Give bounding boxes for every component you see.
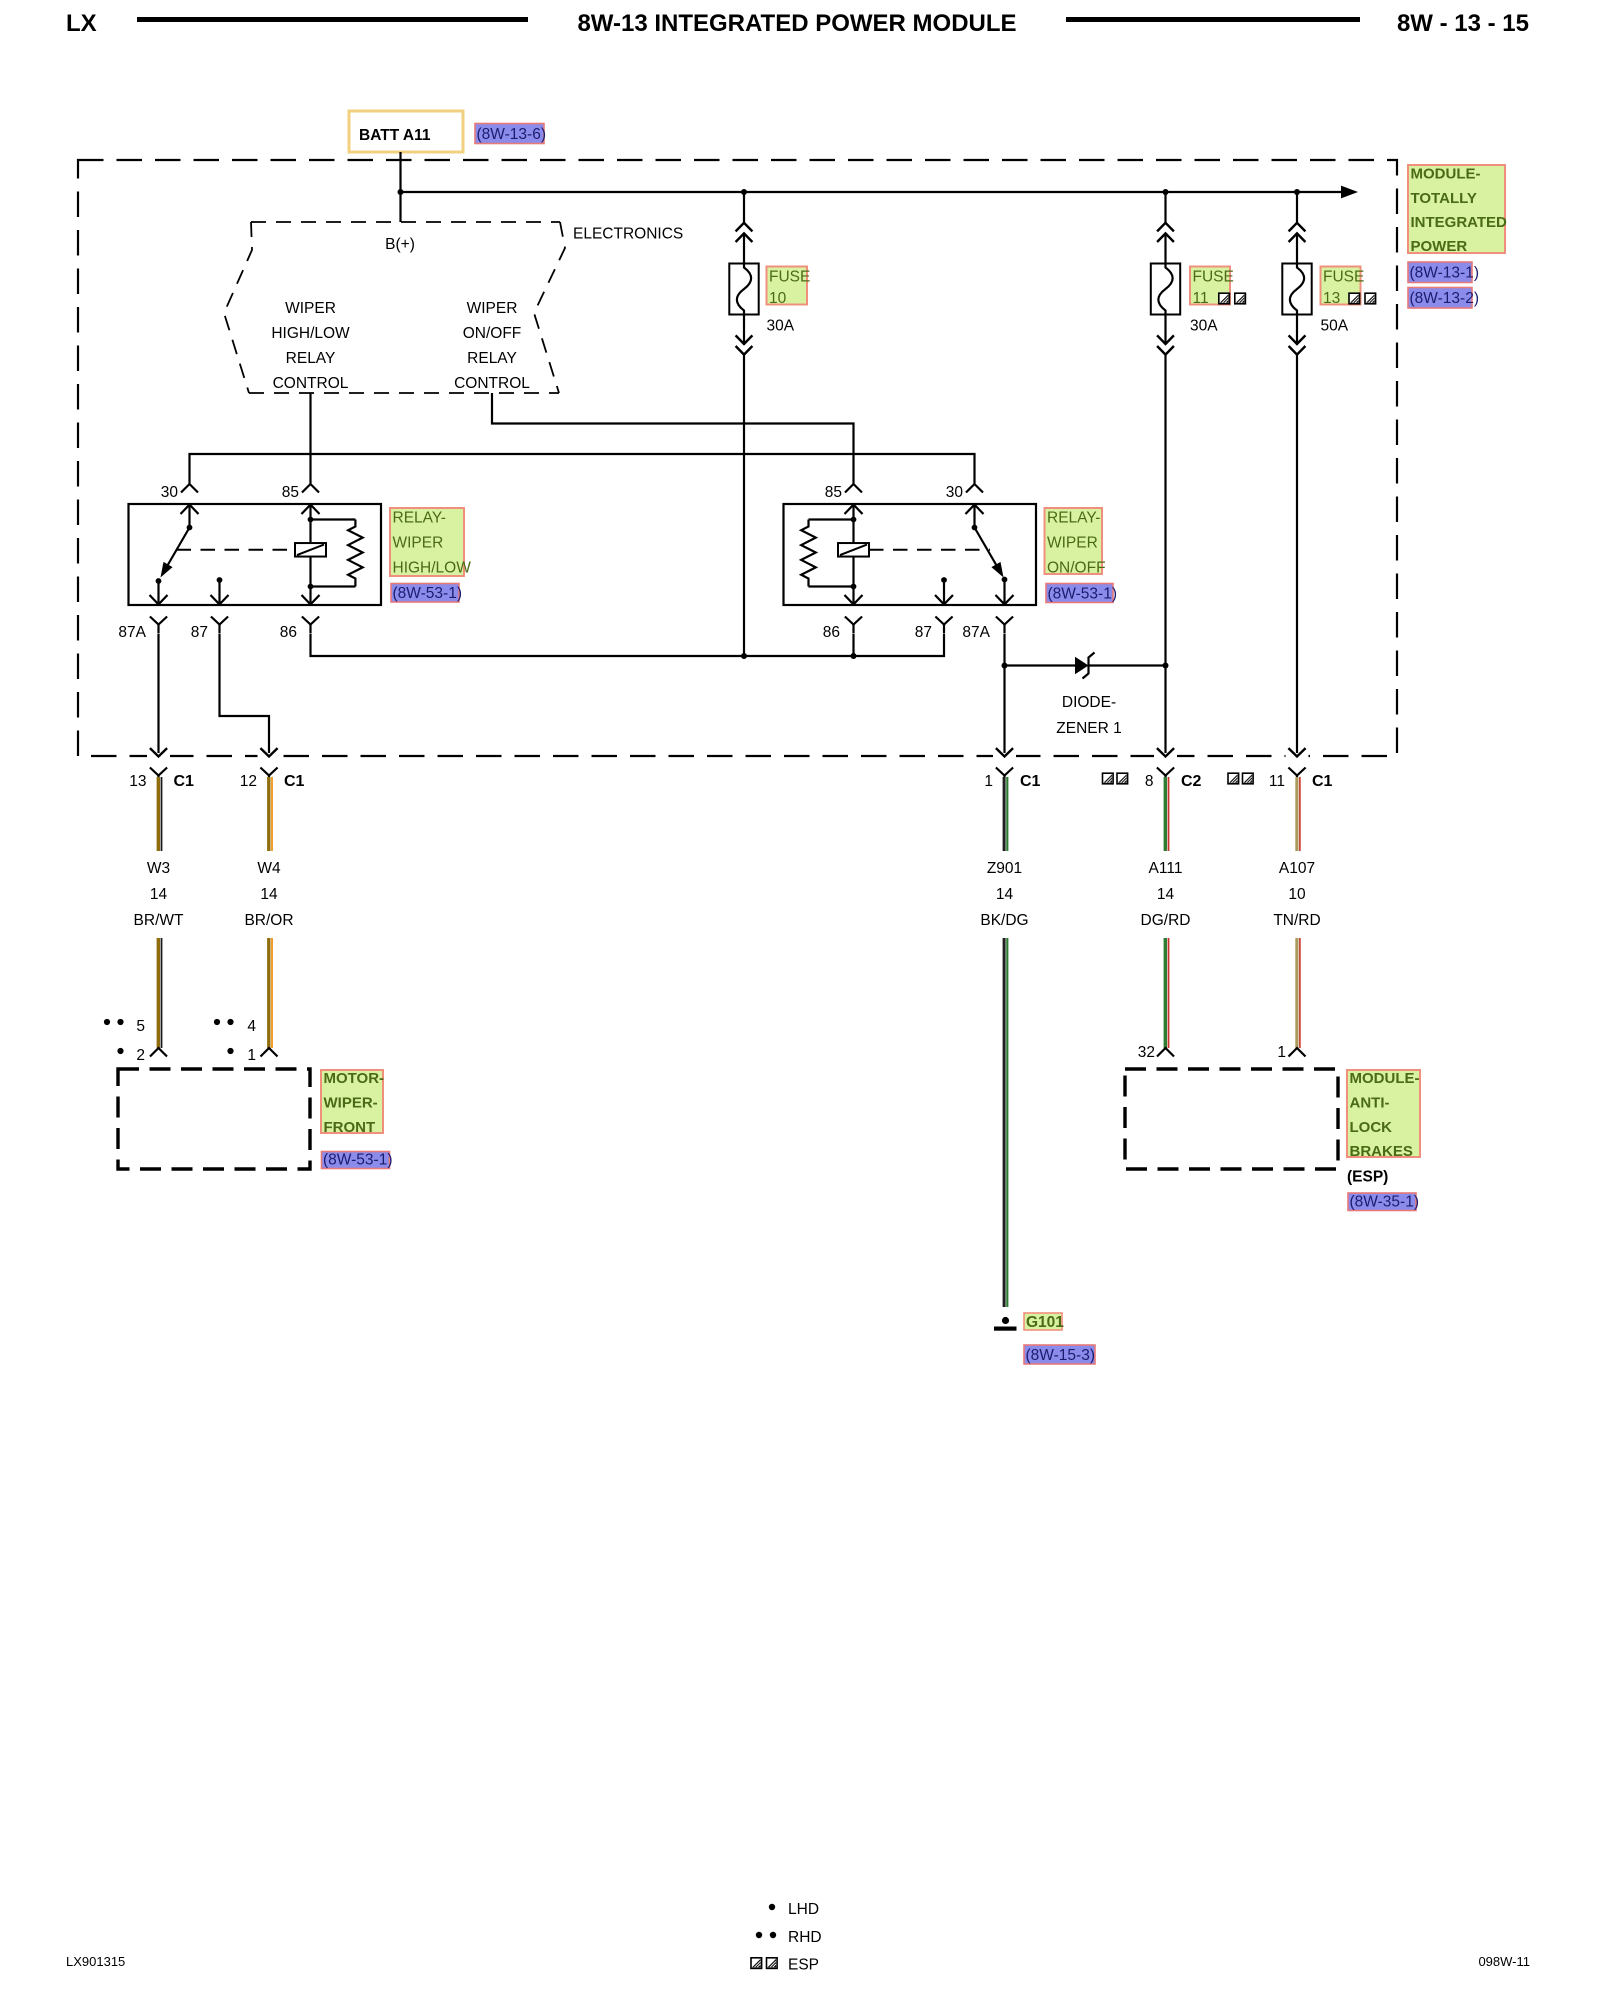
svg-text:1: 1: [247, 1047, 256, 1064]
coil of relay wiper on/off: [838, 517, 869, 590]
svg-text:87: 87: [191, 624, 208, 641]
wire - high/low relay control output to relay coil 85: [309, 393, 311, 484]
svg-text:(8W-53-1): (8W-53-1): [323, 1152, 392, 1169]
svg-text:(8W-15-3): (8W-15-3): [1026, 1347, 1095, 1364]
svg-text:11: 11: [1269, 773, 1285, 790]
svg-text:LX: LX: [66, 10, 97, 37]
svg-text:RELAY: RELAY: [467, 350, 517, 367]
fuse FUSE 11 30A: [1151, 264, 1180, 315]
svg-text:50A: 50A: [1321, 318, 1349, 335]
label FUSE 13 (ESP): [1321, 267, 1376, 335]
svg-text:CONTROL: CONTROL: [273, 375, 349, 392]
svg-text:LOCK: LOCK: [1350, 1119, 1393, 1136]
svg-text:(8W-13-1): (8W-13-1): [1410, 265, 1479, 282]
exit arrow C1-11: [1286, 748, 1309, 759]
svg-text:1: 1: [984, 773, 993, 790]
wire - fused B+ to relay coils 86 and contact 87: [311, 634, 945, 657]
legend ESP marker: [751, 1957, 819, 1974]
svg-text:30A: 30A: [1190, 318, 1218, 335]
wire - fuse 11 feed from B+ bus: [1157, 192, 1174, 264]
module box MODULE-ANTI-LOCK BRAKES (dashed): [1125, 1069, 1338, 1169]
svg-text:BR/OR: BR/OR: [244, 912, 293, 929]
label G101: [1024, 1313, 1064, 1331]
label FUSE 11 (ESP): [1190, 267, 1245, 335]
svg-text:B(+): B(+): [385, 236, 415, 253]
svg-text:(8W-13-6): (8W-13-6): [477, 126, 546, 143]
fuse FUSE 10 30A: [729, 264, 758, 315]
reference (8W-15-3) for ground: [1024, 1345, 1095, 1364]
svg-text:G101: G101: [1026, 1314, 1064, 1331]
relay K1 RELAY-WIPER HIGH/LOW box: [129, 504, 382, 605]
connector pin 13 C1: [129, 768, 194, 791]
svg-text:ZENER 1: ZENER 1: [1056, 720, 1121, 737]
svg-text:30: 30: [946, 484, 964, 501]
junction - coil feed at relay on/off 86: [851, 653, 857, 659]
pin 1/4 of wiper motor (LHD/RHD): [214, 1018, 278, 1064]
pin 32 of ABS module: [1138, 1044, 1174, 1061]
exit arrow C1-13: [147, 748, 170, 759]
svg-text:13: 13: [1323, 290, 1340, 307]
pin 85 of relay wiper on/off: [825, 484, 863, 520]
svg-text:INTEGRATED: INTEGRATED: [1411, 214, 1508, 231]
reference (8W-53-1) for relay wiper high/low: [391, 584, 462, 603]
wire - relay high/low 87A to connector C1-13: [157, 634, 159, 754]
svg-text:87: 87: [915, 624, 932, 641]
reference (8W-35-1) for ABS module: [1348, 1193, 1419, 1211]
svg-text:1: 1: [1277, 1044, 1286, 1061]
svg-text:HIGH/LOW: HIGH/LOW: [271, 325, 350, 342]
wire - zener branch to fuse 11 output: [1005, 664, 1166, 666]
svg-text:W3: W3: [147, 860, 170, 877]
svg-text:FUSE: FUSE: [769, 269, 810, 286]
svg-text:(8W-53-1): (8W-53-1): [1048, 586, 1117, 603]
wire - fuse 13 output down to connector C1-11: [1289, 315, 1306, 754]
switch armature of relay wiper on/off: [972, 525, 1004, 578]
svg-text:32: 32: [1138, 1044, 1155, 1061]
label WIPER ON/OFF RELAY CONTROL: [454, 300, 530, 392]
connector pin 8 C2: [1145, 768, 1202, 791]
pin 1 of ABS module: [1277, 1044, 1305, 1061]
svg-text:RELAY: RELAY: [286, 350, 336, 367]
junction - zener to fuse 11 wire: [1163, 663, 1169, 669]
svg-text:11: 11: [1193, 290, 1209, 307]
wire - on/off relay control output to relay coil 85: [492, 393, 854, 484]
coil of relay wiper high/low: [295, 517, 326, 590]
svg-text:ANTI-: ANTI-: [1350, 1095, 1390, 1112]
svg-text:85: 85: [282, 484, 299, 501]
svg-text:RELAY-: RELAY-: [393, 510, 446, 527]
contact 87 of relay wiper on/off: [915, 577, 953, 641]
legend LHD marker: [769, 1901, 819, 1918]
exit arrow C1-12: [258, 748, 281, 759]
wire - fuse 10 feed from B+ bus: [736, 192, 753, 264]
junction - B+ bus at fuse 10 tap: [741, 189, 747, 195]
label MOTOR-WIPER-FRONT: [321, 1070, 384, 1136]
svg-text:C2: C2: [1181, 773, 1202, 790]
svg-text:14: 14: [150, 886, 168, 903]
connector pin 11 C1: [1269, 768, 1333, 791]
wire - relay on/off 87A down to connector C1-1: [1003, 634, 1005, 754]
svg-text:30A: 30A: [767, 318, 795, 335]
svg-text:DG/RD: DG/RD: [1141, 912, 1191, 929]
svg-text:BATT A11: BATT A11: [359, 127, 431, 144]
svg-text:5: 5: [136, 1018, 145, 1035]
wire - fuse 10 output down to relay contact/coil feed: [736, 315, 753, 657]
reference (8W-53-1) for relay wiper on/off: [1046, 584, 1117, 603]
module box MOTOR-WIPER-FRONT (dashed): [118, 1069, 310, 1169]
wire W3 14 BR/WT: [134, 777, 184, 1048]
svg-text:10: 10: [1288, 886, 1306, 903]
legend RHD marker: [756, 1929, 822, 1946]
svg-text:Z901: Z901: [987, 860, 1022, 877]
pin 86 of relay wiper high/low: [280, 587, 320, 642]
svg-text:A111: A111: [1149, 860, 1183, 877]
block - TIPM electronics wiper relay control (dashed): [224, 222, 565, 393]
ESP marker icons for C1-11: [1228, 773, 1253, 784]
svg-text:WIPER: WIPER: [285, 300, 336, 317]
junction - 87A at zener branch: [1002, 663, 1008, 669]
svg-text:8: 8: [1145, 773, 1154, 790]
reference (8W-53-1) for wiper motor: [322, 1152, 393, 1169]
svg-text:BK/DG: BK/DG: [980, 912, 1028, 929]
exit arrow C2-8: [1154, 748, 1177, 759]
svg-text:MODULE-: MODULE-: [1411, 166, 1481, 183]
wire A107 10 TN/RD: [1273, 777, 1320, 1048]
label MODULE-ANTI-LOCK BRAKES (ESP): [1347, 1070, 1420, 1186]
svg-text:2: 2: [136, 1047, 145, 1064]
pin 30 of relay wiper high/low: [161, 484, 199, 528]
svg-text:85: 85: [825, 484, 842, 501]
svg-text:14: 14: [1157, 886, 1175, 903]
wire W4 14 BR/OR: [244, 777, 293, 1048]
wire Z901 14 BK/DG: [980, 777, 1028, 1307]
ESP marker icons for C2-8: [1103, 773, 1128, 784]
connector pin 12 C1: [240, 768, 305, 791]
svg-text:FUSE: FUSE: [1193, 269, 1234, 286]
svg-text:MODULE-: MODULE-: [1350, 1070, 1420, 1087]
label FUSE 10: [767, 267, 811, 335]
svg-text:POWER: POWER: [1411, 238, 1468, 255]
relay K2 RELAY-WIPER ON/OFF box: [784, 504, 1037, 605]
exit arrow C1-1: [993, 748, 1016, 759]
svg-text:HIGH/LOW: HIGH/LOW: [393, 560, 472, 577]
wire - relay 30 contact bus: [190, 454, 975, 484]
label RELAY-WIPER ON/OFF: [1045, 508, 1106, 577]
pin 2/5 of wiper motor (LHD/RHD): [104, 1018, 167, 1064]
svg-text:BRAKES: BRAKES: [1350, 1143, 1413, 1160]
svg-text:CONTROL: CONTROL: [454, 375, 530, 392]
fuse FUSE 13 50A: [1282, 264, 1311, 315]
pin 30 of relay wiper on/off: [946, 484, 984, 528]
svg-text:(8W-53-1): (8W-53-1): [393, 585, 462, 602]
svg-text:C1: C1: [1020, 773, 1041, 790]
svg-text:ON/OFF: ON/OFF: [1047, 560, 1106, 577]
svg-text:86: 86: [823, 624, 840, 641]
mechanical link (dashed) relay wiper on/off: [869, 549, 990, 551]
svg-text:86: 86: [280, 624, 297, 641]
svg-text:TOTALLY: TOTALLY: [1411, 190, 1477, 207]
switch armature of relay wiper high/low: [161, 525, 193, 578]
label MODULE-TOTALLY INTEGRATED POWER: [1408, 165, 1507, 255]
svg-text:LX901315: LX901315: [66, 1954, 125, 1969]
svg-text:TN/RD: TN/RD: [1273, 912, 1320, 929]
label WIPER HIGH/LOW RELAY CONTROL: [271, 300, 350, 392]
resistor across coil of relay wiper high/low: [311, 520, 363, 587]
contact 87A of relay wiper on/off: [962, 577, 1013, 641]
reference (8W-13-1): [1408, 262, 1479, 283]
svg-text:A107: A107: [1279, 860, 1315, 877]
reference (8W-13-6): [475, 124, 546, 144]
svg-text:14: 14: [996, 886, 1014, 903]
junction - B+ bus at battery drop: [398, 189, 404, 195]
battery feed box BATT A11: [349, 111, 463, 152]
svg-text:C1: C1: [1312, 773, 1333, 790]
svg-text:14: 14: [260, 886, 278, 903]
footer sheet codes: [66, 1954, 1530, 1969]
diode DIODE-ZENER 1: [1056, 653, 1121, 738]
page header title block: [66, 10, 1529, 37]
junction - B+ bus at fuse 13 tap: [1294, 189, 1300, 195]
wire - fuse 11 output down to connector C2-8: [1157, 315, 1174, 754]
contact 87 of relay wiper high/low: [191, 577, 229, 641]
svg-text:(8W-35-1): (8W-35-1): [1350, 1194, 1419, 1211]
module boundary - Totally Integrated Power Module (dashed): [78, 160, 1397, 756]
svg-text:13: 13: [129, 773, 146, 790]
svg-text:4: 4: [247, 1018, 256, 1035]
svg-text:WIPER: WIPER: [1047, 535, 1098, 552]
wire - relay high/low 87 to connector C1-12: [220, 634, 270, 754]
svg-text:ON/OFF: ON/OFF: [463, 325, 522, 342]
svg-text:12: 12: [240, 773, 257, 790]
connector pin 1 C1: [984, 768, 1040, 791]
svg-text:WIPER-: WIPER-: [324, 1095, 378, 1112]
svg-text:87A: 87A: [962, 624, 990, 641]
svg-text:C1: C1: [284, 773, 305, 790]
svg-text:(8W-13-2): (8W-13-2): [1410, 290, 1479, 307]
svg-text:WIPER: WIPER: [467, 300, 518, 317]
svg-text:C1: C1: [174, 773, 195, 790]
reference (8W-13-2): [1408, 288, 1479, 309]
junction - B+ bus at fuse 11 tap: [1163, 189, 1169, 195]
svg-text:W4: W4: [257, 860, 281, 877]
pin 86 of relay wiper on/off: [823, 587, 863, 642]
wire A111 14 DG/RD: [1141, 777, 1191, 1048]
svg-text:DIODE-: DIODE-: [1062, 694, 1116, 711]
svg-text:BR/WT: BR/WT: [134, 912, 184, 929]
wire - BATT A11 feed down from battery box: [399, 152, 401, 222]
svg-text:RHD: RHD: [788, 1929, 822, 1946]
label B(+): [385, 236, 415, 253]
svg-text:10: 10: [769, 290, 787, 307]
svg-text:8W - 13 - 15: 8W - 13 - 15: [1397, 10, 1529, 37]
svg-text:RELAY-: RELAY-: [1047, 510, 1100, 527]
svg-text:ELECTRONICS: ELECTRONICS: [573, 226, 683, 243]
mechanical link (dashed) relay wiper high/low: [177, 549, 294, 551]
wire - fuse 13 feed from B+ bus: [1289, 192, 1306, 264]
svg-text:30: 30: [161, 484, 179, 501]
svg-text:LHD: LHD: [788, 1901, 819, 1918]
ground G101 symbol: [994, 1317, 1017, 1331]
label ELECTRONICS: [573, 226, 683, 243]
pin 85 of relay wiper high/low: [282, 484, 320, 520]
wire - main B+ bus inside TIPM: [401, 186, 1359, 199]
junction - coil feed at fuse 10 drop: [741, 653, 747, 659]
svg-text:ESP: ESP: [788, 1957, 819, 1974]
svg-text:87A: 87A: [118, 624, 146, 641]
svg-text:FUSE: FUSE: [1323, 269, 1364, 286]
svg-text:MOTOR-: MOTOR-: [324, 1070, 385, 1087]
svg-text:WIPER: WIPER: [393, 535, 444, 552]
svg-text:8W-13 INTEGRATED POWER MODULE: 8W-13 INTEGRATED POWER MODULE: [577, 10, 1016, 37]
label RELAY-WIPER HIGH/LOW: [390, 508, 471, 577]
resistor across coil of relay wiper on/off: [801, 520, 853, 587]
contact 87A of relay wiper high/low: [118, 578, 167, 641]
svg-text:(ESP): (ESP): [1347, 1169, 1388, 1186]
svg-text:098W-11: 098W-11: [1478, 1954, 1530, 1969]
svg-text:FRONT: FRONT: [324, 1119, 376, 1136]
